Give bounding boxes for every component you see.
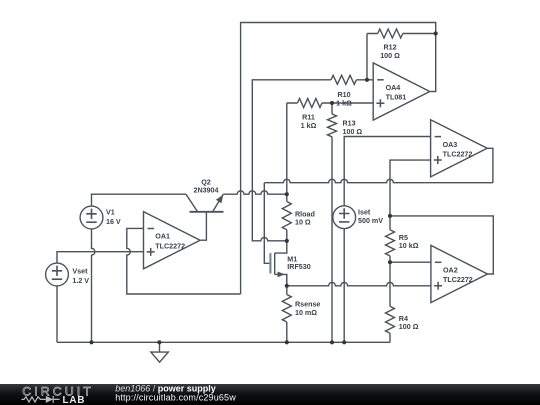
wire ground bus [57,341,390,343]
wire R10 to drain node (left and down) [252,80,331,241]
wire OA1 output to Q2 base [201,212,207,240]
wire OA2 output to divider top [390,216,493,274]
wire Rsense bottom to ground bus [286,322,288,342]
logo diode symbol [46,396,53,403]
svg-text:1 kΩ: 1 kΩ [336,100,352,108]
op-amp OA3 non-inverting input sign [434,156,442,164]
wire R13 top lead [331,103,333,114]
svg-text:V1: V1 [106,209,115,217]
source Iset plus sign [339,208,349,218]
resistor Rload (10 Ohm) [282,202,291,230]
op-amp OA1 inverting input sign [148,228,155,230]
wire V1 top to Q2 collector [92,194,187,206]
svg-text:R4: R4 [399,315,408,323]
wire R10 right lead to OA4 inverting node [356,79,373,81]
junction node divider top [388,214,392,218]
wire M1 source down to Rsense [286,274,288,294]
wire Iset top to OA3 inverting input [344,137,430,206]
source V1 minus sign [86,221,96,223]
wire R13 bottom lead to ground bus [331,137,333,342]
op-amp OA4 inverting input sign [377,79,384,81]
op-amp OA3 inverting input sign [435,136,442,138]
resistor Rsense (10 mOhm) [282,295,291,323]
op-amp OA2 non-inverting input sign [434,282,442,290]
source Vset minus sign [52,278,62,280]
junction node Iset ground [342,340,346,344]
transistor Q2 emitter arrow [216,195,223,204]
wire R12 right lead to output node [403,33,436,35]
op-amp OA1 non-inverting input sign [147,248,155,256]
resistor R10 (1 kOhm) [331,75,356,84]
wire Q2 emitter to load node [223,191,286,194]
svg-text:R10: R10 [337,91,350,99]
svg-text:100 Ω: 100 Ω [343,128,363,136]
wire OA3 output drop [487,148,493,182]
svg-text:R5: R5 [399,234,408,242]
transistor M1 source lead [275,274,287,285]
svg-text:R12: R12 [383,44,396,52]
transistor Q2 emitter [213,194,224,212]
wire OA1 inverting input loop (left side, down and right) [127,228,241,294]
svg-text:100 Ω: 100 Ω [399,323,419,331]
wire Vset to OA1 non-inverting input [57,252,144,264]
junction node OA2 inverting [388,260,392,264]
svg-text:TLC2272: TLC2272 [155,242,185,250]
svg-text:500 mV: 500 mV [358,217,383,225]
wire M1 gate vertical [264,183,270,264]
svg-text:TL081: TL081 [386,94,407,102]
svg-text:Iset: Iset [358,209,371,217]
transistor M1 drain lead [275,241,287,253]
transistor M1 source arrow [278,272,285,278]
wire Vset bottom to ground bus [56,286,58,342]
source V1 plus sign [86,209,96,219]
logo resistor zigzag [22,397,46,402]
junction node R13 ground [330,340,334,344]
source Iset circle [333,206,356,229]
svg-text:16 V: 16 V [106,218,121,226]
wire OA3 non-inverting input to divider top [390,160,431,216]
junction node ground tap [157,340,161,344]
wire Iset bottom to ground bus [343,229,345,343]
op-amp OA4 body [373,63,430,120]
wire V1 bottom to ground bus [92,229,95,342]
svg-text:Vset: Vset [72,268,88,276]
wire R5 to OA2 inverting node [389,256,391,262]
svg-text:LAB: LAB [63,395,86,405]
svg-text:2N3904: 2N3904 [193,187,218,195]
junction node drain [285,239,289,243]
logo diode bar and lead [53,396,59,403]
op-amp OA2 inverting input sign [435,261,442,263]
resistor R12 (100 Ohm) [378,29,403,38]
wire OA4 output to top-left loop (node to OA1 feedback) [241,23,436,295]
op-amp OA4 non-inverting input sign [376,99,384,107]
junction node R11/R13 [330,101,334,105]
svg-text:10 mΩ: 10 mΩ [295,309,317,317]
svg-text:R13: R13 [343,120,356,128]
svg-text:http://circuitlab.com/c29u65w: http://circuitlab.com/c29u65w [115,393,236,403]
svg-text:OA2: OA2 [443,267,458,275]
junction node V1 ground [89,340,93,344]
resistor R4 (100 Ohm) [386,306,395,333]
svg-text:10 Ω: 10 Ω [295,218,311,226]
op-amp OA1 body [144,212,201,269]
junction node load top [285,192,289,196]
transistor Q2 collector [186,194,198,212]
svg-text:TLC2272: TLC2272 [443,276,473,284]
wire source sense bus to OA2 non-inverting input [287,282,431,285]
svg-text:TLC2272: TLC2272 [443,150,473,158]
wire OA2 inverting wire [390,261,431,263]
svg-text:OA1: OA1 [155,233,170,241]
wire R4 bottom to ground bus [389,333,391,342]
junction node OA4 inverting [365,78,369,82]
wire R11 to OA4 non-inverting input [287,102,373,104]
resistor R11 (1 kOhm) [298,99,323,108]
wire R11 left lead down to Rload [286,103,288,202]
svg-text:OA3: OA3 [443,141,458,149]
junction node Rsense ground [285,340,289,344]
svg-text:1 kΩ: 1 kΩ [301,122,317,130]
resistor R13 (100 Ohm) [328,114,337,137]
wire Rload bottom to drain node [286,230,288,241]
junction node R12/OA4 output [434,31,438,35]
svg-text:10 kΩ: 10 kΩ [399,242,419,250]
wire gate bus [264,179,493,182]
transistor M1 channel bar [274,253,276,274]
svg-text:Q2: Q2 [201,178,211,186]
source Vset circle [46,263,69,286]
svg-text:Rsense: Rsense [295,301,320,309]
junction node source sense [285,284,289,288]
ground symbol [151,342,168,362]
source Vset plus sign [52,266,62,276]
op-amp OA2 body [431,245,488,302]
svg-text:100 Ω: 100 Ω [380,52,400,60]
source V1 circle [80,206,103,229]
svg-text:OA4: OA4 [386,84,401,92]
wire divider top to R5 [389,216,391,230]
svg-text:1.2 V: 1.2 V [72,277,89,285]
svg-text:IRF530: IRF530 [287,263,310,271]
op-amp OA3 body [431,120,488,177]
svg-text:R11: R11 [302,114,315,122]
source Iset minus sign [339,221,349,223]
transistor Q2 base bar [190,211,224,213]
wire R12 left lead down to OA4 inverting node [367,34,378,80]
transistor M1 gate bar [269,253,271,273]
wire OA2 inverting node down to R4 [389,262,391,306]
resistor R5 (10 kOhm) [386,230,395,256]
